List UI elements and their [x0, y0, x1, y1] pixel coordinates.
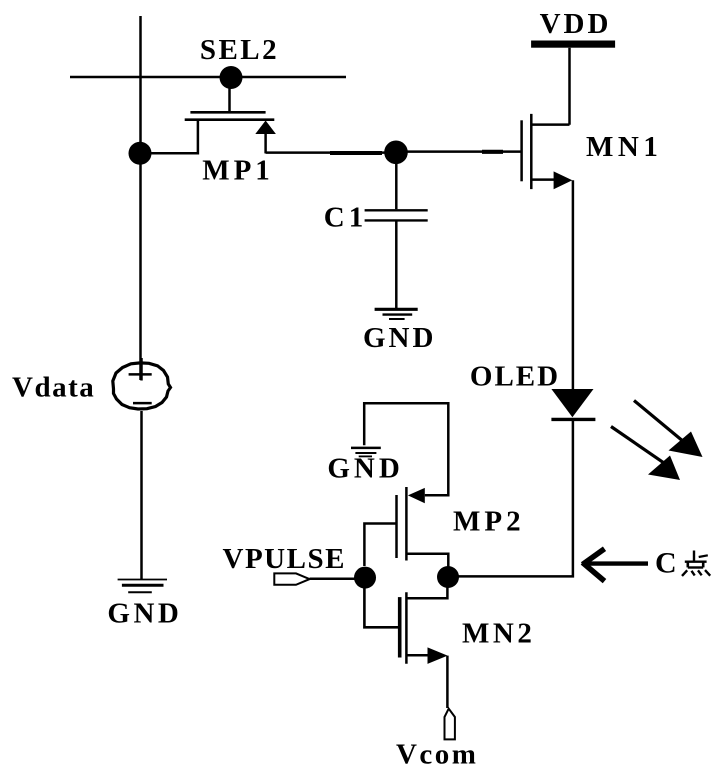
svg-text:MP2: MP2 [453, 506, 525, 538]
svg-text:SEL2: SEL2 [200, 34, 279, 66]
ground GND1 bar1 [375, 308, 418, 311]
capacitor C1 top lead [395, 163, 398, 209]
transistor MN1 source lead [531, 178, 556, 181]
transistor MP1 gate bar [190, 111, 265, 114]
transistor MP2 channel bar [405, 487, 408, 561]
label dian glyph of C point [682, 551, 710, 576]
node VPULSE junction [354, 567, 376, 589]
ground GND2 bar1 [351, 447, 381, 450]
transistor MN2 gate bar [398, 597, 402, 657]
svg-text:OLED: OLED [470, 360, 560, 392]
svg-text:C: C [655, 547, 678, 580]
wire MP2 drain to GND2 [364, 403, 448, 495]
wire data line upper segment [139, 16, 142, 380]
source Vdata minus bar [133, 402, 152, 405]
transistor MN1 channel bar [530, 114, 533, 189]
transistor MP1 gate stub [228, 89, 231, 112]
svg-text:GND: GND [363, 322, 436, 354]
svg-text:GND: GND [107, 597, 182, 629]
svg-text:MN2: MN2 [462, 618, 535, 650]
wire OLED cathode to C node [448, 421, 573, 576]
diode OLED anode triangle [551, 389, 593, 417]
wire SEL2 select line [70, 76, 346, 79]
transistor MN1 drain lead [531, 123, 569, 126]
wire C1 node to MN1 gate [407, 150, 521, 153]
transistor MP2 gate bar [395, 495, 398, 558]
svg-text:MP1: MP1 [202, 155, 274, 187]
ground GND2 bar2 [355, 452, 376, 454]
light emission arrow 1 head [669, 432, 703, 458]
transistor MN1 gate bar [520, 120, 523, 181]
transistor MP2 source lead [406, 554, 448, 567]
annotation C point arrow head upper [583, 549, 605, 565]
ground GND1 bar2 [383, 313, 413, 315]
wire VPULSE to node [310, 578, 356, 581]
source Vdata plus lead [140, 358, 143, 381]
light emission arrow 1 shaft [634, 401, 684, 443]
transistor MN2 gate lead [364, 588, 399, 627]
transistor MP2 drain arrow [408, 488, 425, 503]
wire data line lower segment [140, 411, 143, 579]
wire VDD to MN1 drain [568, 48, 571, 125]
node SEL2 gate junction [220, 66, 243, 89]
node C junction [437, 566, 459, 588]
ground GND2 bar3 [359, 455, 372, 457]
source Vdata circle [113, 363, 171, 409]
light emission arrow 2 shaft [611, 427, 663, 463]
capacitor C1 plate bottom [365, 219, 428, 221]
capacitor C1 plate top [365, 209, 428, 211]
connector Vcom [445, 709, 455, 740]
svg-text:MN1: MN1 [586, 131, 662, 163]
wire MN2 source to Vcom [446, 656, 449, 708]
svg-text:VDD: VDD [540, 8, 612, 40]
source Vdata plus bar [129, 373, 152, 376]
transistor MP2 gate lead [364, 524, 396, 567]
svg-text:Vdata: Vdata [12, 372, 95, 404]
node C1 junction [384, 141, 408, 165]
svg-text:Vcom: Vcom [396, 739, 478, 771]
node data line junction [129, 142, 152, 165]
transistor MN2 source lead [406, 654, 429, 657]
light emission arrow 2 head [648, 456, 680, 481]
svg-text:C1: C1 [324, 202, 367, 234]
wire MP1-C1 overlap segment [330, 151, 382, 155]
wire MP1 to C1 node [266, 151, 385, 154]
power VDD bar [531, 41, 615, 48]
transistor MP1 source leg [264, 133, 267, 153]
capacitor C1 bottom lead [395, 222, 398, 309]
svg-text:VPULSE: VPULSE [223, 543, 346, 575]
wire MN1 gate overlap segment [482, 150, 503, 154]
ground GND3 bar3 [128, 591, 152, 593]
diode OLED cathode bar [551, 418, 595, 421]
ground GND1 bar3 [389, 318, 405, 320]
connector VPULSE [274, 573, 309, 584]
annotation C point arrow head lower [583, 563, 605, 582]
wire MN1 source to OLED anode [572, 180, 575, 389]
transistor MN2 drain lead [406, 587, 447, 598]
transistor MP1 channel bar [185, 118, 275, 121]
ground GND3 bar2 [122, 584, 164, 587]
transistor MP1 drain leg [141, 120, 198, 153]
transistor MN1 source arrow [554, 171, 573, 189]
ground GND3 bar1 [118, 579, 167, 581]
transistor MN2 source arrow [428, 647, 448, 664]
transistor MN2 channel bar [405, 592, 408, 664]
transistor MP1 source arrow [255, 121, 276, 135]
svg-text:GND: GND [327, 452, 403, 484]
annotation C point arrow shaft [584, 561, 648, 565]
